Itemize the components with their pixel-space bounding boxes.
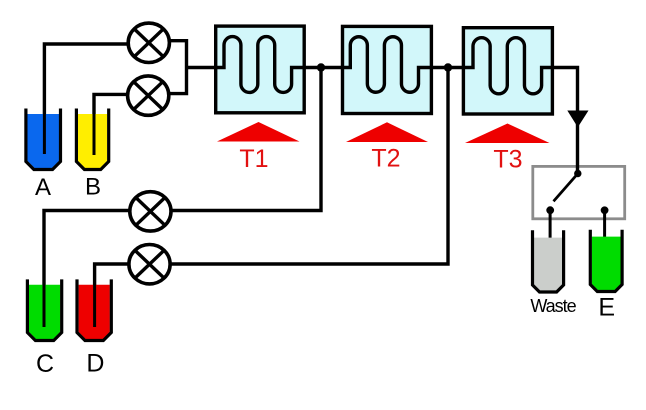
vial B tube (93, 114, 96, 155)
wire vial D to pump P4 (95, 264, 130, 327)
junction J1 (317, 63, 325, 71)
vial A tube (43, 114, 46, 154)
vial C liquid (29, 285, 60, 339)
vial E liquid (592, 237, 621, 291)
svg-text:A: A (35, 174, 51, 201)
wire pump P4 output to junction J2 (170, 68, 448, 265)
selector common node (574, 170, 581, 177)
reactor T2 box (343, 26, 432, 113)
wire valve into selector (576, 165, 579, 175)
vial D tube (93, 284, 96, 327)
wire selector to vial Waste (549, 210, 552, 247)
reactor T3 box (463, 28, 552, 114)
selector port to E (601, 206, 609, 214)
pump P3 (130, 192, 171, 231)
svg-text:E: E (598, 293, 615, 321)
svg-text:B: B (85, 174, 101, 201)
svg-text:D: D (86, 350, 104, 378)
heater triangle under T2 (346, 122, 428, 142)
vial B liquid (78, 114, 107, 168)
svg-text:T1: T1 (239, 145, 268, 173)
vial D liquid (79, 285, 110, 339)
svg-text:T3: T3 (493, 146, 522, 174)
wire vial B to pump P2 (94, 94, 130, 155)
reactor T1 box (216, 26, 305, 113)
vial C (27, 279, 61, 340)
vial B (76, 109, 108, 170)
selector port to Waste (546, 206, 554, 214)
vial Waste (533, 230, 564, 292)
heater triangle under T3 (465, 124, 550, 144)
check valve triangle (567, 111, 588, 128)
svg-text:Waste: Waste (530, 296, 576, 316)
vial Waste liquid (534, 238, 562, 291)
vial A (26, 109, 61, 170)
vial A liquid (28, 114, 60, 168)
pump P4 (129, 245, 170, 284)
heater triangle under T1 (217, 122, 300, 142)
main channel wire with coils through T1 T2 T3 to valve (187, 37, 578, 171)
wire selector to vial E (603, 210, 606, 249)
svg-text:C: C (36, 350, 54, 378)
vial C tube (43, 284, 46, 327)
wire pump P1 output to merge point (166, 41, 187, 94)
pump P1 (128, 23, 169, 62)
selector valve box (533, 166, 625, 218)
pump P2 (128, 76, 169, 115)
wire vial C to pump P3 (44, 211, 131, 328)
wire vial A to pump P1 (44, 44, 130, 154)
junction J2 (444, 63, 452, 71)
vial E (590, 230, 622, 292)
wire pump P3 output to junction J1 (170, 68, 321, 211)
selector lever (554, 175, 577, 201)
vial D (77, 279, 111, 340)
svg-text:T2: T2 (371, 145, 400, 173)
